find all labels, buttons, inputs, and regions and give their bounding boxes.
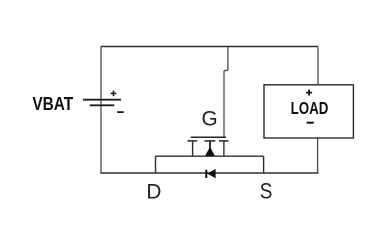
svg-text:VBAT: VBAT: [32, 93, 73, 114]
mosfet Q1 body leg stem: [209, 141, 211, 149]
load minus mark: [307, 122, 314, 124]
body diode D1 cathode bar: [205, 170, 207, 178]
wire drain riser: [155, 156, 157, 173]
battery B1 positive plate: [83, 99, 121, 101]
mosfet Q1 source leg: [223, 141, 225, 156]
mosfet Q1 body arrow: [205, 147, 215, 156]
wire source riser: [263, 156, 265, 173]
wire gate branch jog: [224, 70, 228, 72]
wire load bottom segment: [317, 138, 319, 173]
wire top rail: [101, 46, 318, 48]
mosfet Q1 source channel dash: [219, 140, 228, 142]
svg-text:G: G: [202, 107, 218, 130]
mosfet Q1 gate plate: [191, 136, 226, 138]
wire gate branch lower segment: [223, 71, 225, 138]
svg-text:D: D: [146, 181, 161, 204]
load plus mark: [306, 90, 312, 96]
wire bottom rail: [100, 172, 318, 174]
wire left branch (battery vertical): [100, 47, 102, 174]
mosfet Q1 body channel dash: [205, 140, 216, 142]
mosfet Q1 drain leg: [192, 141, 194, 156]
battery B1 plus mark: [111, 91, 117, 97]
wire source-drain platform: [156, 155, 264, 157]
wire gate branch upper segment: [227, 47, 229, 71]
wire load top segment: [317, 47, 319, 85]
mosfet Q1 drain channel dash: [188, 140, 198, 142]
svg-text:LOAD: LOAD: [291, 98, 329, 118]
load box: [264, 85, 353, 138]
body diode D1 anode triangle: [207, 169, 215, 178]
battery B1 negative plate: [90, 104, 114, 106]
battery B1 minus mark: [117, 111, 124, 113]
svg-text:S: S: [260, 178, 273, 203]
